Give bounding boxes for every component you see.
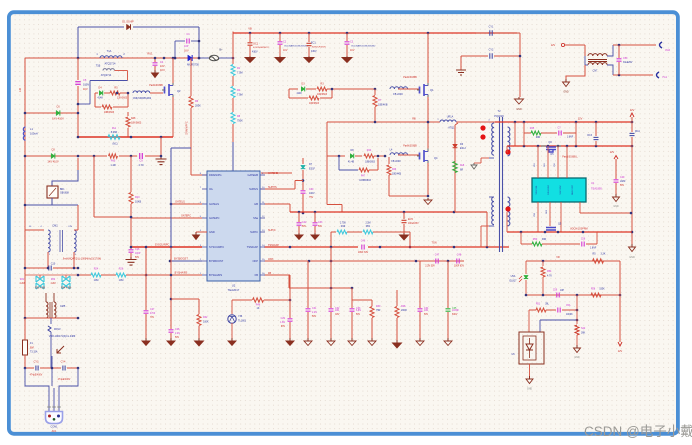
svg-text:HB: HB [254,202,258,206]
transistor Q4 low-side MOSFET [419,153,421,160]
svg-text:750K: 750K [237,120,243,123]
capacitor EC5 with ground [403,212,405,219]
svg-text:R48: R48 [131,117,136,120]
svg-text:10M: 10M [94,279,99,282]
svg-text:GND: GND [516,108,522,111]
capacitor C5 on x=78 [75,81,81,83]
svg-text:SUPHS: SUPHS [249,187,258,191]
resistor R51 timing [363,230,373,234]
svg-text:D1 SS-8P: D1 SS-8P [122,20,134,24]
svg-text:ATQ2714: ATQ2714 [101,74,112,77]
svg-text:C1: C1 [186,32,190,36]
svg-text:U2: U2 [232,284,236,288]
wire aux to TSN row [455,211,487,213]
svg-text:GD1 GD2: GD1 GD2 [548,184,550,194]
capacitor C1 snubber [175,40,185,42]
svg-text:10P: 10P [560,290,565,292]
pin 1 DRAIN/PG [202,174,207,176]
CY caps to chassis [461,55,488,57]
wire GATEPC row y=218 [94,216,131,218]
diode D6 [453,144,458,147]
svg-text:10N: 10N [424,310,429,312]
svg-text:BYSHA/RS: BYSHA/RS [175,272,188,275]
svg-text:SYSCU/RPC: SYSCU/RPC [209,245,224,249]
diode D8 [350,154,353,159]
svg-text:10R/0603: 10R/0603 [309,103,320,105]
resistor Rv5 [109,154,118,158]
wire HV bus y=33 [233,32,517,34]
wire bias primary return to ground [584,56,586,65]
svg-text:Q1: Q1 [430,88,434,92]
svg-text:50V: 50V [356,314,361,316]
svg-text:50V: 50V [175,337,180,339]
svg-text:C48: C48 [457,254,462,257]
svg-text:R10: R10 [135,196,140,199]
svg-text:10E/4KB: 10E/4KB [378,104,388,107]
capacitor C9 [139,153,141,159]
ground bias GND [565,79,567,82]
svg-text:BD1: BD1 [60,189,65,191]
wire RB down leg x=327 [326,122,328,205]
pin 9 GATEHB [260,174,265,176]
half-bridge HB row y=212 [264,203,290,205]
junction dots on HV bus [249,32,252,35]
pin 13 SUPIC [260,231,265,233]
row start-up y=156 [25,155,107,157]
svg-text:B2/82uF/450V: B2/82uF/450V [312,47,327,49]
svg-text:C56: C56 [581,239,586,241]
PFC return bus y=137 [78,136,173,138]
svg-text:10B/0603: 10B/0603 [104,111,115,114]
ground right rail [631,244,633,247]
svg-text:L8ZZ: L8ZZ [620,181,626,183]
svg-text:C8V: C8V [335,314,340,316]
svg-text:8OCH/1O0PRM: 8OCH/1O0PRM [570,228,587,231]
pin 5 GND [202,231,207,233]
svg-text:CY1: CY1 [489,26,494,29]
svg-text:BYSBOOST: BYSBOOST [209,259,224,263]
svg-text:R58: R58 [591,289,596,291]
svg-text:C30: C30 [309,188,314,191]
svg-text:430V: 430V [311,50,317,53]
U3 vcc stub right [579,202,581,213]
svg-text:RC3: RC3 [587,135,592,137]
svg-text:1.8NF: 1.8NF [590,248,597,250]
svg-text:GATEHB: GATEHB [248,173,259,177]
svg-text:Rv1: Rv1 [112,127,117,130]
svg-text:10R/0603: 10R/0603 [317,94,328,96]
svg-text:C42: C42 [302,221,307,224]
connector YG1 [657,72,660,78]
svg-text:10E/4KB: 10E/4KB [392,174,402,176]
svg-text:1.4R: 1.4R [110,164,115,167]
wire primary pins [489,157,494,159]
svg-text:GND: GND [613,205,619,208]
svg-text:C49: C49 [620,176,625,179]
pin 11 HB [260,203,265,205]
long drop x=146 [145,247,147,310]
capacitor C2 with ground [279,33,281,41]
sense resistors R24 R26 row y=275 [78,274,91,276]
svg-text:100V: 100V [309,192,315,195]
capacitor C4 with ground [154,58,156,62]
inductor L2 gate bead [133,91,150,93]
svg-text:50V: 50V [135,257,140,259]
wire left input rail x=25 [24,58,26,368]
wire CY chassis leg [519,33,521,97]
svg-text:GATEPC: GATEPC [209,216,220,220]
wire fb x=577 [576,295,578,324]
capacitor C30 [301,190,306,192]
svg-text:OKP: OKP [268,258,274,261]
resistor R5 [110,91,120,95]
feedback top row VR y=261 [526,260,620,262]
svg-text:103NF: 103NF [452,310,459,312]
resistor R32 with ground [171,298,199,300]
transformer T2 core [499,117,501,252]
bootstrap capacitor C42 with ground [298,212,300,222]
svg-text:FB: FB [268,272,272,275]
half-bridge node row RB y=122 [327,121,440,123]
svg-text:GATEHB: GATEHB [268,172,278,175]
resistor R57 [593,259,604,263]
svg-text:GBU808: GBU808 [60,193,70,195]
svg-text:B+: B+ [219,48,223,52]
svg-text:R30: R30 [376,305,381,308]
resistor R54 [542,261,544,266]
svg-text:1KV 410V: 1KV 410V [52,117,64,121]
resistor R46 FB [232,299,252,301]
wire to Q4 gate loop [327,155,337,157]
svg-text:4.2M: 4.2M [50,283,55,285]
svg-text:SUPIC: SUPIC [268,229,276,232]
line filter caps row y=368 [25,367,34,369]
svg-text:BYSBOOST: BYSBOOST [174,258,188,261]
snubber C7 [541,132,557,134]
svg-text:CY2: CY2 [489,49,494,52]
resistor R4 parallel lower [288,89,290,98]
capacitor C16 with ground [130,246,132,249]
pin 6 SYSCU/RPC [202,246,207,248]
protective earth arrow [57,346,64,353]
resistor R49 timing [331,231,336,233]
svg-text:C/N: C/N [68,226,72,228]
ground for C4 [154,70,156,73]
svg-text:R32: R32 [51,279,56,281]
svg-text:7.5M: 7.5M [237,72,243,75]
capacitor C59 [556,293,558,298]
capacitor CY2 [489,53,491,59]
wire bias to transformer [565,44,585,46]
polarity dot primary a [480,125,485,130]
svg-text:C46: C46 [361,240,366,243]
row FB to divider [264,274,289,276]
svg-text:CSDN @电子小戴: CSDN @电子小戴 [584,424,692,439]
svg-text:BλF: BλF [30,348,35,350]
svg-text:R50: R50 [533,238,538,241]
svg-text:100N: 100N [83,84,89,87]
ground CY [518,97,520,99]
pin 15 OKP [260,260,265,262]
transformer T2 primary winding upper [492,123,494,155]
svg-text:EC1: EC1 [311,42,316,45]
svg-text:EC5: EC5 [408,218,413,221]
feedback mid row y=295 [526,294,620,296]
svg-text:GND: GND [527,388,533,391]
svg-text:C31: C31 [312,307,317,310]
svg-text:FB 2200: FB 2200 [391,160,401,163]
svg-text:TEA2017: TEA2017 [228,288,240,292]
resistor R58 [591,293,601,297]
wire SUPHS [261,188,295,190]
svg-text:C6: C6 [56,105,60,109]
svg-text:10N: 10N [335,310,340,312]
capacitor CY1 [489,30,491,36]
svg-text:10NB/0603: 10NB/0603 [359,180,371,182]
svg-text:R28: R28 [401,305,406,308]
transistor Q5 sync FET low [541,231,561,233]
capacitor C48 [456,259,458,264]
aux winding T1B [103,69,114,71]
wire Q1 drain to bus [427,33,429,83]
svg-text:TL1801: TL1801 [238,320,247,323]
capacitor C46 [361,245,363,250]
svg-text:75R: 75R [376,309,381,312]
svg-text:50V: 50V [318,226,323,228]
svg-text:4.7N: 4.7N [138,164,143,167]
snubber C56 [542,243,580,245]
svg-text:DRAIN/PG: DRAIN/PG [209,173,222,177]
resistor R47 lower loop [338,156,340,170]
svg-text:C27: C27 [150,308,155,311]
resistor Rv8 [453,162,457,173]
svg-text:VS2 VD2: VS2 VD2 [560,185,562,195]
diode D2 MUR5730 boost diode [188,55,192,61]
svg-text:C29: C29 [281,317,286,320]
svg-text:T1B: T1B [96,65,101,68]
wires to AC inlet [25,368,49,412]
svg-text:U5A: U5A [511,275,516,278]
svg-text:10K/0603: 10K/0603 [131,122,142,125]
svg-text:100F 63V: 100F 63V [454,266,464,268]
polarity dot primary b [480,134,485,139]
svg-text:C8: C8 [51,148,55,152]
resistor R51 fb [536,308,546,312]
svg-text:TSNICAP: TSNICAP [268,244,279,247]
row OKP y=261 [264,260,464,262]
pin 14 TSNICAP [260,246,265,248]
svg-text:U1: U1 [591,181,595,185]
svg-text:1KV: 1KV [350,49,355,52]
ground end of row 156 [160,157,162,160]
svg-text:ICL: ICL [209,187,214,191]
svg-text:R32: R32 [203,316,208,319]
svg-text:100uH: 100uH [30,132,38,136]
svg-text:Rv5: Rv5 [111,160,116,163]
svg-text:2.75K: 2.75K [340,223,346,225]
svg-text:C59: C59 [553,290,558,292]
snubber R45 [524,132,531,134]
svg-text:GATELS: GATELS [175,201,185,204]
capacitor RC3 [595,122,597,136]
svg-text:533K: 533K [599,289,605,291]
svg-text:CM2: CM2 [52,225,58,228]
svg-text:C10: C10 [51,263,56,266]
snubber R50 [520,232,522,244]
polarity dot secondary b [505,206,510,211]
transistor Q3 sync FET [541,145,561,147]
pin 10 SUPHS [260,188,265,190]
capacitor C29 with ground [289,275,291,318]
svg-text:VB: VB [248,27,252,31]
svg-text:TSN: TSN [432,242,437,245]
inductor L4 FB-2200 [390,153,408,155]
wire Q4 source row to ground [427,163,429,196]
inductor L1 [23,127,25,140]
svg-text:39R: 39R [536,136,541,139]
svg-text:200K: 200K [195,105,201,108]
svg-text:R45: R45 [530,127,535,130]
svg-text:1K: 1K [257,307,260,310]
aux winding UR1A [440,120,456,122]
svg-text:200R: 200R [401,309,407,312]
polarity dot secondary a [505,149,510,154]
svg-text:CMF/1600/BU202: CMF/1600/BU202 [133,98,152,100]
transistor Q1 high-side MOSFET [419,87,421,94]
svg-text:C50: C50 [623,57,628,60]
svg-text:SYSCU/RPC: SYSCU/RPC [155,244,170,247]
wire blue loop right leg [198,27,200,58]
svg-text:1KV: 1KV [283,49,288,52]
ground pin 4 of U2 [196,231,207,233]
svg-text:12K/0603: 12K/0603 [117,97,128,100]
svg-text:GND: GND [209,230,215,234]
pin 8 BYSHA/RS [202,274,207,276]
svg-text:474μE/400V: 474μE/400V [58,379,71,381]
capacitor C28 with ground [169,329,174,331]
svg-text:VDR-10D471(K)CL.0489: VDR-10D471(K)CL.0489 [49,335,76,338]
svg-text:12V: 12V [610,151,615,154]
svg-text:4148: 4148 [296,93,302,95]
inductor L3 FB-2200 [390,87,408,89]
svg-text:CN7: CN7 [593,70,598,73]
svg-text:10M: 10M [119,279,124,282]
svg-text:VR: VR [556,256,560,259]
svg-text:100P: 100P [135,253,141,255]
pin 4 GATEPC [202,217,207,219]
svg-text:474μE/400V: 474μE/400V [30,375,43,377]
svg-text:10B/0603: 10B/0603 [365,162,376,164]
inductor T1A ATQ2714 [100,56,122,58]
svg-text:2.2N 50V: 2.2N 50V [425,266,435,268]
right rail x=632 [631,146,633,244]
bootstrap capacitor C43 with ground [314,212,316,222]
diode D7 supply [302,158,304,164]
svg-text:TEA1995: TEA1995 [591,187,602,191]
common mode choke CM2 [25,229,44,231]
capacitor C50 [618,45,620,58]
capacitor C8 [51,153,55,158]
svg-text:75V: 75V [309,196,314,199]
svg-text:10P: 10P [184,45,189,48]
capacitor C32 with ground [330,247,332,308]
svg-text:2.2N: 2.2N [312,312,317,314]
wire HV bus corner [232,32,234,59]
capacitor C10 X-cap row [25,267,47,269]
divider row y=310 [529,309,536,311]
resistor R6 drain sense upper [190,58,192,96]
svg-text:50V: 50V [302,226,307,228]
svg-text:50V: 50V [620,185,625,187]
U3 pin stubs bottom [537,202,539,232]
svg-text:(NC): (NC) [112,143,117,146]
svg-text:FB: FB [255,273,259,277]
capacitor C47 [435,259,437,264]
svg-text:PasN/3036B: PasN/3036B [149,84,163,87]
svg-text:8.06R: 8.06R [111,131,118,134]
svg-text:SSa: SSa [253,216,258,220]
PFC gate network row y=93 [95,92,98,94]
svg-text:MUR5730: MUR5730 [187,63,199,67]
svg-text:4.2M: 4.2M [19,283,24,285]
optocoupler U5A LED [525,261,527,274]
capacitor C33 with ground [351,288,353,308]
capacitor C31 with ground [307,261,309,308]
svg-text:VD1 VS1: VD1 VS1 [536,185,538,195]
svg-text:R46: R46 [392,169,397,171]
svg-text:630V: 630V [452,314,458,316]
resistor R7 gate return [374,89,376,95]
pin 12 SSa [260,217,265,219]
svg-text:MOV2: MOV2 [54,329,61,331]
svg-text:39K: 39K [581,332,586,335]
svg-text:CY4: CY4 [61,361,66,364]
svg-text:9mH(NQAT/2/L)-10094(Ax15/17/34: 9mH(NQAT/2/L)-10094(Ax15/17/34) [63,258,101,261]
resistor R44 [364,154,374,158]
svg-text:C47: C47 [435,254,440,257]
resistor R9 lower row [94,93,96,107]
svg-text:GATEPC: GATEPC [181,215,191,218]
op IC U3 TEA1995 sync controller [532,178,586,202]
diode D1 snubber loop top wire [78,26,124,28]
svg-text:Q2: Q2 [177,89,181,93]
current sense resistor Rv1 [108,135,120,140]
svg-text:RU1: RU1 [147,52,153,56]
svg-text:10NF 63V: 10NF 63V [358,252,369,254]
svg-text:Q4: Q4 [434,156,438,160]
svg-text:RCA: RCA [635,130,640,133]
wire U6 cathode ground [529,364,531,376]
sense divider stack R1 R2 R8 on x=233 [232,58,234,64]
svg-text:12V: 12V [630,108,635,112]
gate drive row Q4 loop [337,155,345,157]
capacitor RCA [631,122,633,132]
svg-text:CON1: CON1 [51,426,59,429]
svg-text:DRAIN/PFC: DRAIN/PFC [186,121,189,135]
gate drive row Q1 y=89 [289,88,298,90]
svg-text:100K: 100K [203,321,209,324]
resistor R48 gate pulldown [127,112,129,116]
svg-text:TSNICAP: TSNICAP [247,245,259,249]
resistor R43 gate pulldown [388,157,390,164]
svg-text:39R: 39R [542,238,547,241]
svg-text:1KV 410V: 1KV 410V [47,161,59,164]
capacitor C27 with ground [144,310,149,312]
svg-text:R26: R26 [119,268,124,271]
svg-text:SUPIC: SUPIC [250,230,258,234]
svg-text:1KV: 1KV [184,50,189,53]
svg-text:10V: 10V [160,64,165,68]
